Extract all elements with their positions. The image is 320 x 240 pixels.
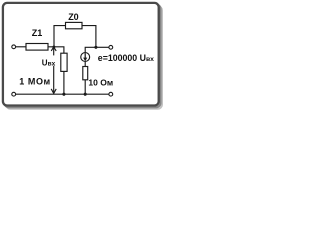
svg-text:Z0: Z0 xyxy=(68,12,79,22)
svg-text:Uвх: Uвх xyxy=(42,58,56,67)
svg-text:e=100000 Uвх: e=100000 Uвх xyxy=(98,53,154,63)
svg-text:10 Ом: 10 Ом xyxy=(88,77,113,87)
svg-text:1 МОм: 1 МОм xyxy=(19,76,50,86)
svg-text:Z1: Z1 xyxy=(32,28,43,38)
